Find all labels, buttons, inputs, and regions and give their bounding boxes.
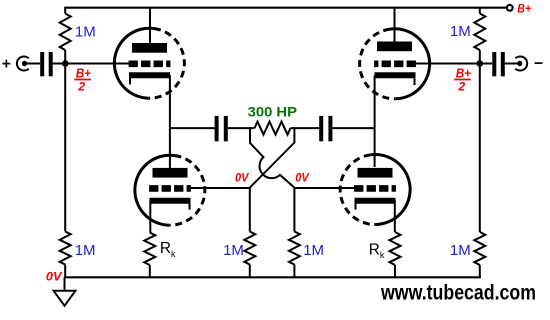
wire node B down right column [479,64,481,233]
triode V4 (bottom right) [340,155,410,232]
V4 envelope solid arc [371,155,411,225]
resistor R3 1M bottom-left [60,232,71,265]
V4 cathode left tick [355,203,357,210]
V3 plate [153,168,188,178]
wire R1 to node A [64,50,66,64]
V2 plate [377,42,412,52]
svg-text:0V: 0V [235,171,249,185]
svg-text:1M: 1M [450,242,471,259]
label - (input polarity) [535,62,543,64]
resistor R4 1M mid-left [244,232,255,265]
wire P1 right terminal to C4 [291,127,320,129]
V3 cathode right tick [189,203,191,210]
wire J2 to C2 [505,63,517,65]
V4 envelope dashed arc [340,155,376,225]
V4 plate [358,168,393,178]
resistor Rk left [144,233,155,266]
V2 envelope solid arc [390,29,430,99]
V2 envelope dashed arc [360,29,396,99]
wire R4 to bottom rail [249,265,251,278]
V4 cathode lead [394,200,396,232]
V1 cathode [129,72,170,78]
capacitor C4 (right coupling) [319,116,332,141]
V1 cathode left tick [129,78,131,85]
ground symbol [54,277,76,306]
wire crossover hop (P1 left to node D) [250,128,294,188]
resistor R2 1M top-right [474,14,485,51]
V1 envelope solid arc [114,28,154,98]
svg-text:1M: 1M [450,23,471,40]
svg-text:0V: 0V [295,171,309,185]
V1 envelope dashed arc [149,29,185,99]
wire R2 to node B [479,50,481,64]
wire node B to V2 grid [414,63,480,65]
svg-text:1M: 1M [75,23,96,40]
V2 plate lead to rail [394,8,396,42]
node A junction dot [62,60,69,67]
wire J1 to C1 [27,63,40,65]
wire C2 to node B [480,63,493,65]
V4 cathode [355,198,396,204]
wire coupling line left (V1/V3 tap to C3) [170,127,215,129]
capacitor C3 (left coupling) [215,116,228,141]
V2 cathode [375,72,416,78]
potentiometer P1 300 HP [255,122,291,135]
resistor R6 1M bottom-right [474,232,485,265]
svg-text:0V: 0V [46,270,63,284]
svg-text:www.tubecad.com: www.tubecad.com [380,281,536,305]
resistor R5 1M mid-right [289,232,300,265]
V1 grid [129,60,171,67]
capacitor C1 (left input) [40,52,53,76]
svg-text:2: 2 [457,79,465,93]
wire R3 to bottom rail [64,265,66,278]
wire Rk right to bottom rail [394,265,396,277]
wire node A to V1 grid [65,63,131,65]
wire bottom 0V rail [64,276,481,278]
label B+/2 (left): fraction bar [74,79,91,81]
V3 envelope solid arc [135,155,175,225]
wire C4 to V2/V4 tap [332,127,374,129]
V2 cathode right tick [414,78,416,85]
wire V2 cathode to V4 plate (right mid vertical) [374,76,376,168]
wire R6 to bottom rail corner [479,265,481,277]
wire V1 cathode to V3 plate (left mid vertical) [169,75,171,168]
capacitor C2 (right input) [492,52,505,76]
input connector J2 (right) [515,57,527,71]
V3 cathode [150,198,191,204]
V1 plate lead to rail [149,8,151,43]
svg-text:300 HP: 300 HP [248,104,297,120]
resistor R1 1M top-left [60,14,71,51]
svg-text:1M: 1M [223,242,244,259]
wire C3 to P1 left terminal [228,127,255,129]
wire left column upper (rail to R1) [64,8,66,14]
svg-text:B+: B+ [517,2,531,16]
V4 grid [354,185,396,192]
label + (input polarity) [2,60,10,68]
input connector J1 (left) [17,56,29,70]
V2 grid [374,60,416,67]
svg-text:B+: B+ [76,65,91,80]
wire crossover straight (P1 right to node C) [250,128,295,188]
V3 grid [149,185,191,192]
svg-text:1M: 1M [75,242,96,259]
svg-text:1M: 1M [303,242,324,259]
V1 plate [132,43,167,53]
svg-text:2: 2 [77,79,85,93]
svg-text:B+: B+ [456,65,471,80]
label B+/2 (right): fraction bar [454,79,471,81]
terminal B+ (top right) [507,5,513,11]
V3 envelope dashed arc [169,156,205,226]
wire right column upper (rail to R2) [479,8,481,14]
node B junction dot [477,60,484,67]
resistor Rk right [390,232,401,265]
wire C1 to node A [53,63,65,65]
triode V3 (bottom left) [135,155,205,232]
wire node C to R4 [249,188,251,232]
wire R5 to bottom rail [293,265,295,278]
triode V2 (top right) [360,8,430,99]
wire Rk left to bottom rail [149,265,151,277]
wire V4 grid to node D [294,187,354,189]
triode V1 (top left) [114,8,184,99]
wire top B+ rail [64,7,506,9]
V3 cathode lead [149,200,151,232]
wire node D to R5 [293,188,295,232]
wire node A down left column [64,64,66,232]
wire V3 grid to node C [191,187,250,189]
